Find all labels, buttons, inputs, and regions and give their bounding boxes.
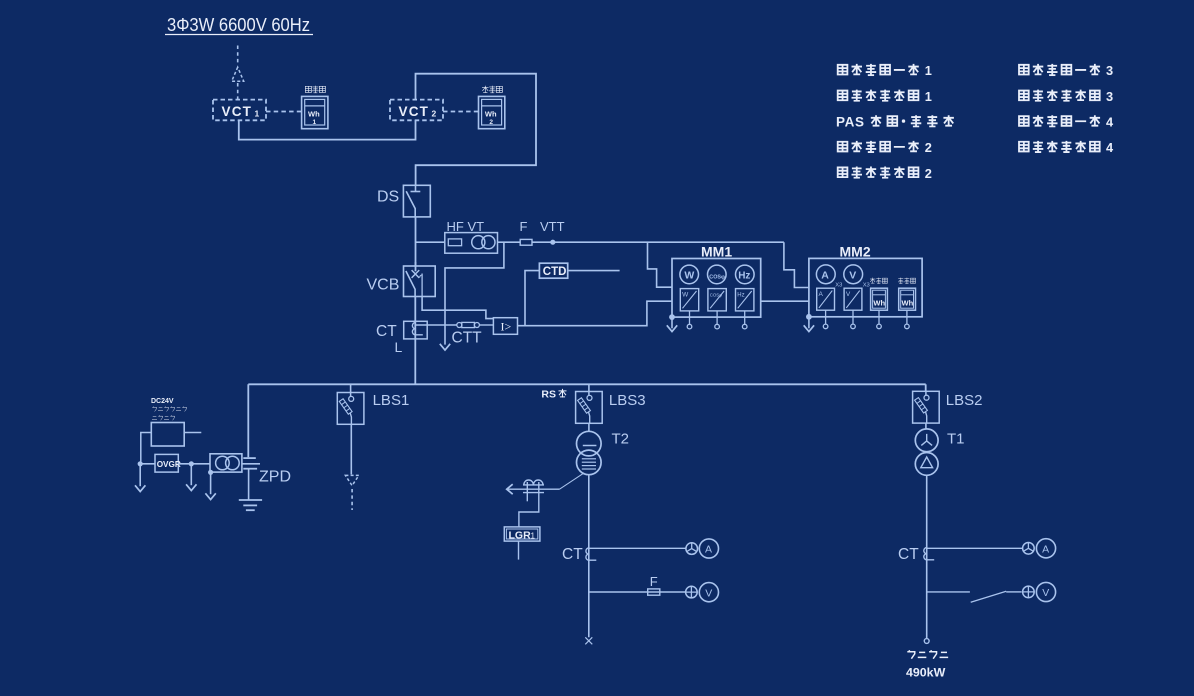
svg-text:2: 2: [925, 140, 932, 155]
svg-text:F: F: [650, 574, 658, 589]
svg-text:490kW: 490kW: [906, 665, 946, 679]
svg-text:W: W: [684, 269, 694, 281]
svg-text:RS: RS: [541, 389, 556, 401]
svg-text:I>: I>: [501, 319, 512, 333]
svg-text:CTD: CTD: [543, 266, 567, 278]
svg-text:2: 2: [432, 108, 437, 118]
svg-text:VCT: VCT: [399, 104, 430, 119]
svg-text:1: 1: [925, 89, 932, 104]
svg-text:Wh: Wh: [873, 299, 885, 308]
svg-text:VCB: VCB: [367, 277, 400, 294]
svg-text:W: W: [682, 291, 689, 298]
svg-text:3Φ3W 6600V 60Hz: 3Φ3W 6600V 60Hz: [167, 15, 310, 35]
svg-text:L: L: [395, 339, 403, 355]
svg-text:X3: X3: [863, 283, 870, 289]
svg-text:CTT: CTT: [452, 330, 483, 347]
svg-text:PAS: PAS: [836, 115, 865, 130]
svg-text:CT: CT: [376, 323, 397, 340]
svg-text:COSφ: COSφ: [710, 292, 723, 297]
svg-text:LBS3: LBS3: [609, 392, 646, 409]
svg-text:MM1: MM1: [701, 243, 732, 259]
svg-text:COSφ: COSφ: [709, 274, 725, 280]
svg-text:Hz: Hz: [737, 292, 744, 298]
svg-text:LBS1: LBS1: [373, 392, 410, 409]
svg-text:HF VT: HF VT: [447, 219, 485, 234]
svg-text:1: 1: [255, 108, 260, 118]
svg-text:T1: T1: [947, 431, 965, 448]
svg-text:Wh: Wh: [485, 110, 497, 119]
svg-text:V: V: [1042, 587, 1049, 599]
svg-text:Wh: Wh: [308, 110, 320, 119]
svg-text:A: A: [821, 269, 829, 281]
svg-text:Hz: Hz: [738, 270, 750, 281]
svg-text:3: 3: [1106, 63, 1113, 78]
svg-text:LGR: LGR: [509, 530, 532, 542]
svg-text:2: 2: [925, 166, 932, 181]
svg-text:A: A: [1042, 544, 1049, 556]
svg-text:DS: DS: [377, 189, 399, 206]
svg-text:X3: X3: [835, 283, 842, 289]
svg-text:ZPD: ZPD: [259, 469, 291, 486]
svg-text:CT: CT: [562, 546, 583, 563]
svg-text:1: 1: [925, 63, 932, 78]
svg-text:VCT: VCT: [222, 104, 253, 119]
svg-text:OVGR: OVGR: [157, 460, 181, 469]
svg-text:A: A: [705, 544, 712, 556]
svg-text:3: 3: [1106, 89, 1113, 104]
svg-text:2: 2: [489, 119, 493, 126]
svg-text:MM2: MM2: [840, 243, 871, 259]
svg-text:Wh: Wh: [902, 299, 914, 308]
svg-text:V: V: [849, 269, 856, 281]
svg-text:V: V: [846, 291, 851, 298]
svg-text:V: V: [705, 587, 712, 599]
svg-text:1: 1: [531, 532, 536, 541]
svg-text:CT: CT: [898, 546, 919, 563]
svg-text:1: 1: [313, 119, 317, 126]
svg-text:T2: T2: [612, 431, 630, 448]
svg-text:DC24V: DC24V: [151, 398, 174, 405]
svg-text:4: 4: [1106, 140, 1114, 155]
svg-text:F: F: [520, 219, 528, 234]
svg-text:4: 4: [1106, 115, 1114, 130]
svg-text:VTT: VTT: [540, 219, 565, 234]
svg-text:LBS2: LBS2: [946, 392, 983, 409]
svg-text:A: A: [819, 291, 824, 298]
